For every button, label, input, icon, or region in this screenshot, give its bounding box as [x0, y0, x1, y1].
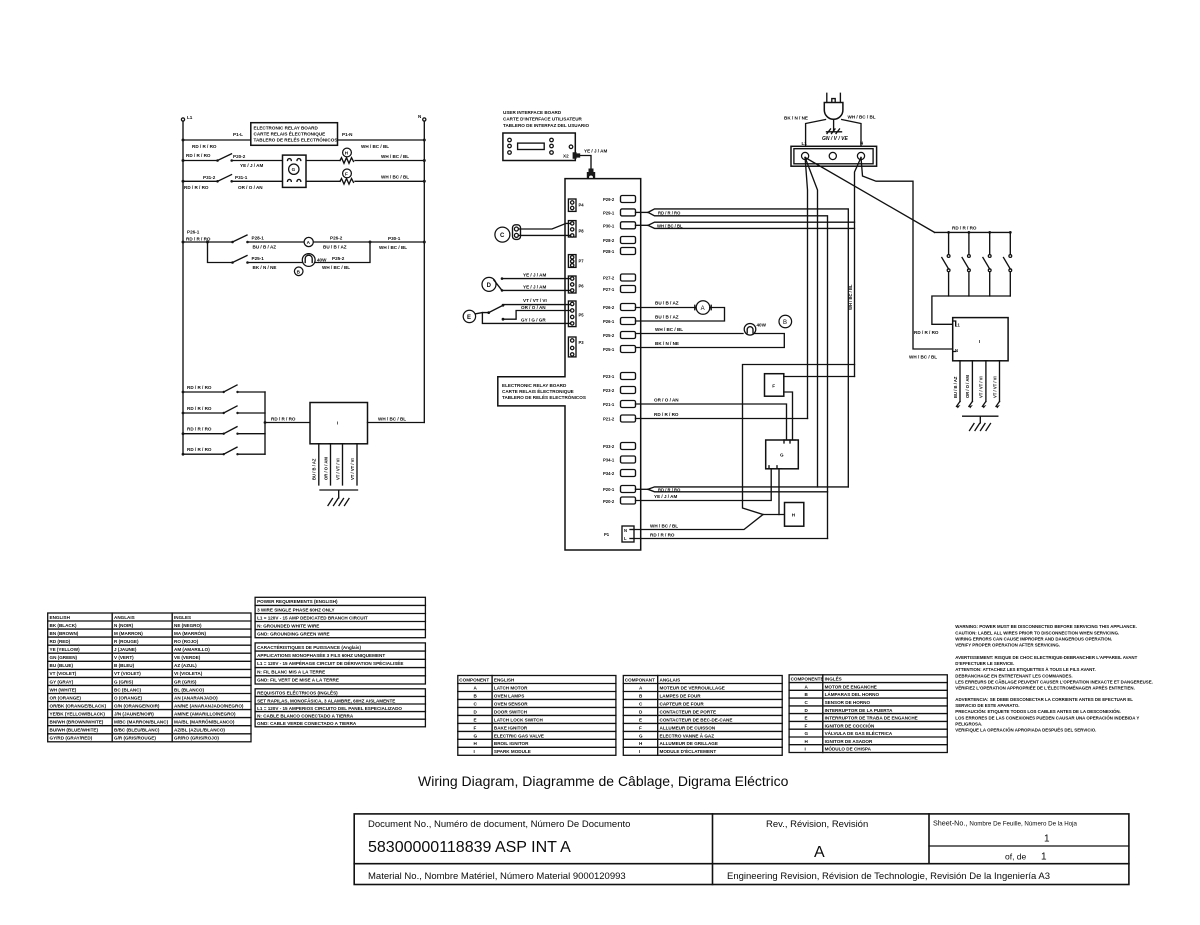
svg-text:VT / VT / VI: VT / VT / VI: [335, 458, 340, 480]
svg-text:ELECTRO VANNE À GAZ: ELECTRO VANNE À GAZ: [660, 732, 715, 738]
pin P29-2: [603, 196, 636, 203]
wire P21-1 OR/O/AN to gas valve: [636, 398, 787, 441]
wire plug BK/N/NE: [784, 116, 826, 154]
svg-text:P20-1: P20-1: [603, 487, 615, 492]
wire P30-1 WH/BC/BL banner to N net: [636, 222, 855, 228]
svg-text:F: F: [639, 725, 642, 730]
resistor F (bake ignitor) on rung3: [340, 169, 354, 184]
svg-text:WH / BC / BL: WH / BC / BL: [379, 245, 407, 250]
svg-text:LOS ERRORES DE LAS CONEXIONES: LOS ERRORES DE LAS CONEXIONES PUEDEN CAU…: [955, 715, 1139, 720]
svg-text:CARTE RELAIS ÉLECTRONIQUE: CARTE RELAIS ÉLECTRONIQUE: [254, 130, 326, 137]
svg-text:RD / R / RO: RD / R / RO: [952, 226, 977, 231]
svg-text:F: F: [805, 723, 808, 728]
svg-text:WH / BC / BL: WH / BC / BL: [322, 265, 350, 270]
component table spanish: [789, 675, 947, 753]
warning text block: [955, 624, 1153, 733]
wire L1 to P21-2: [805, 158, 807, 419]
svg-text:G: G: [780, 453, 784, 458]
svg-text:L1: L1: [187, 115, 193, 120]
wire P29-1 RD/R/RO banner to L1 net: [636, 209, 849, 539]
svg-text:N: GROUNDED WHITE WIRE: N: GROUNDED WHITE WIRE: [257, 623, 319, 628]
spark electrode arrows: [957, 401, 1001, 408]
svg-text:GR (GRIS): GR (GRIS): [174, 679, 197, 684]
svg-text:BK / N / NE: BK / N / NE: [784, 116, 808, 121]
svg-text:N: N: [624, 528, 627, 533]
svg-text:VT / VT / VI: VT / VT / VI: [992, 376, 997, 398]
switch on rung3: [216, 175, 233, 183]
connector P6: [568, 276, 584, 293]
svg-text:BK / N / NE: BK / N / NE: [253, 265, 277, 270]
svg-text:CAPTEUR DE FOUR: CAPTEUR DE FOUR: [660, 701, 705, 706]
svg-text:GN / V / VE: GN / V / VE: [822, 136, 849, 142]
svg-text:RD / R / RO: RD / R / RO: [914, 330, 939, 335]
svg-text:58300000118839 ASP INT A: 58300000118839 ASP INT A: [368, 839, 571, 856]
svg-text:P23-2: P23-2: [603, 388, 615, 393]
burner switch 2: [962, 232, 970, 296]
svg-text:LATCH MOTOR: LATCH MOTOR: [494, 685, 528, 690]
svg-text:40W: 40W: [317, 258, 327, 263]
svg-text:E: E: [467, 315, 471, 321]
svg-text:C: C: [500, 233, 505, 239]
pin P33-2: [603, 443, 636, 450]
svg-text:E: E: [805, 716, 808, 721]
svg-text:F: F: [474, 725, 477, 730]
svg-text:P25-2: P25-2: [603, 333, 615, 338]
svg-text:F: F: [345, 171, 348, 176]
svg-text:B/BC (BLEU/BLANC): B/BC (BLEU/BLANC): [114, 728, 160, 733]
svg-text:VT (VIOLET): VT (VIOLET): [114, 671, 141, 676]
wire N loop to splice: [743, 365, 855, 515]
svg-text:L: L: [624, 536, 627, 541]
svg-text:BK (BLACK): BK (BLACK): [50, 623, 78, 628]
svg-text:ELECTRONIC RELAY BOARD: ELECTRONIC RELAY BOARD: [502, 383, 567, 388]
svg-text:Sheet-No., Nombre De Feuille,: Sheet-No., Nombre De Feuille, Número De …: [933, 819, 1078, 828]
svg-text:P28-1: P28-1: [603, 249, 615, 254]
wire module N label: [909, 355, 937, 360]
wire P21-2 RD/R/RO to L1: [636, 412, 808, 419]
svg-text:D: D: [487, 283, 492, 289]
wire D to P6 YE/J/AM: [502, 273, 571, 291]
electronic relay board label: [502, 383, 586, 400]
svg-text:ANGLAIS: ANGLAIS: [114, 615, 135, 620]
wire module output leads: [312, 444, 358, 485]
svg-text:AZ/BL (AZUL/BLANCO): AZ/BL (AZUL/BLANCO): [174, 728, 225, 733]
connector P3: [568, 337, 584, 357]
pin P25-1: [603, 346, 636, 353]
svg-text:DOOR SWITCH: DOOR SWITCH: [494, 709, 528, 714]
pin P26-1: [603, 318, 636, 325]
svg-text:COMPONENTE: COMPONENTE: [791, 677, 824, 682]
oven lamp 40W (right): [744, 323, 766, 336]
svg-text:40W: 40W: [757, 323, 767, 328]
pin P23-1: [603, 373, 636, 380]
svg-text:PELIGROSA.: PELIGROSA.: [955, 722, 982, 727]
svg-text:REQUISITOS ELÉCTRICOS (INGLÉS): REQUISITOS ELÉCTRICOS (INGLÉS): [257, 689, 338, 696]
svg-text:P3: P3: [579, 340, 585, 345]
svg-text:P23-1: P23-1: [603, 374, 615, 379]
svg-text:V (VERT): V (VERT): [114, 655, 134, 660]
svg-text:P34-1: P34-1: [603, 458, 615, 463]
vertical WH/BC/BL label: [848, 284, 853, 310]
svg-text:VE (VERDE): VE (VERDE): [174, 655, 201, 660]
svg-text:ADVERTENCIA: SE DEBE DESCONECT: ADVERTENCIA: SE DEBE DESCONECTAR LA CORR…: [955, 697, 1133, 702]
svg-text:OR / O / AM: OR / O / AM: [323, 457, 328, 480]
svg-text:LAMPES DE FOUR: LAMPES DE FOUR: [660, 693, 702, 698]
svg-text:BU / B / AZ: BU / B / AZ: [655, 315, 679, 320]
svg-text:WH / BC / BL: WH / BC / BL: [848, 115, 876, 120]
wire P20-1 RD/R/RO flag: [636, 487, 849, 492]
svg-text:NE (NEGRO): NE (NEGRO): [174, 623, 202, 628]
svg-text:LÁMPARAS DEL HORNO: LÁMPARAS DEL HORNO: [825, 691, 880, 697]
wire P25-2 WH/BC/BL to oven lamp: [636, 327, 744, 334]
svg-text:RD / R / RO: RD / R / RO: [658, 211, 681, 216]
svg-text:P20-2: P20-2: [603, 499, 615, 504]
svg-text:P21-1: P21-1: [603, 402, 615, 407]
pin P28-2: [603, 237, 636, 244]
svg-text:OR/BK (ORANGE/BLACK): OR/BK (ORANGE/BLACK): [50, 703, 107, 708]
wire L1 to P20-1 net: [805, 158, 817, 487]
pin P30-1: [603, 222, 636, 229]
svg-text:RD / R / RO: RD / R / RO: [187, 406, 212, 411]
svg-text:L1: L1: [802, 141, 808, 146]
svg-text:MOTEUR DE VERROUILLAGE: MOTEUR DE VERROUILLAGE: [660, 685, 725, 690]
svg-text:AN (ANARANJADO): AN (ANARANJADO): [174, 695, 218, 700]
svg-text:WH / BC / BL: WH / BC / BL: [381, 175, 409, 180]
svg-text:RD / R / RO: RD / R / RO: [186, 153, 211, 158]
svg-text:YE / J / AM: YE / J / AM: [523, 284, 546, 289]
svg-text:ELECTRONIC RELAY BOARD: ELECTRONIC RELAY BOARD: [254, 126, 319, 131]
diagram title: [418, 773, 789, 789]
burner switch 4: [1004, 232, 1012, 296]
svg-text:OR / O / AN: OR / O / AN: [521, 305, 546, 310]
gas valve G box: [766, 440, 799, 469]
pin P20-1: [603, 486, 636, 493]
component table english: [458, 676, 616, 756]
svg-text:VÉRIFIEZ L'OPERATION APPROPRIÉ: VÉRIFIEZ L'OPERATION APPROPRIÉE DE L'ÉLE…: [955, 686, 1135, 691]
svg-text:YE / J / AM: YE / J / AM: [523, 273, 546, 278]
svg-text:RD / R / RO: RD / R / RO: [184, 185, 209, 190]
wire lower bus to module L1: [914, 296, 1010, 335]
svg-text:P29-2: P29-2: [603, 197, 615, 202]
wire X2 to P9 YE/J/AM: [580, 149, 607, 169]
svg-text:ELECTRIC GAS VALVE: ELECTRIC GAS VALVE: [494, 733, 544, 738]
wire lamp branch: [206, 241, 372, 271]
svg-text:P26-1: P26-1: [603, 319, 615, 324]
svg-text:RD / R / RO: RD / R / RO: [658, 487, 681, 492]
svg-text:VERIFY PROPER OPERATION AFTER: VERIFY PROPER OPERATION AFTER SERVICING.: [955, 643, 1060, 648]
svg-text:VT / VT / VI: VT / VT / VI: [979, 376, 984, 398]
spark module I (right): [953, 318, 1008, 361]
pin P34-1: [603, 456, 636, 463]
svg-text:GY / G / GR: GY / G / GR: [521, 317, 546, 322]
svg-text:AM/NE (AMARILLO/NEGRO): AM/NE (AMARILLO/NEGRO): [174, 712, 236, 717]
svg-text:INGLES: INGLES: [174, 615, 191, 620]
electronic relay board outline: [498, 179, 641, 550]
switch on lamp branch: [231, 256, 249, 264]
svg-text:P8: P8: [579, 229, 585, 234]
wire P20-2 YE/J/AM to gas valve: [636, 469, 772, 501]
svg-text:P25-2: P25-2: [332, 256, 345, 261]
svg-text:B: B: [783, 320, 787, 326]
svg-text:YE (YELLOW): YE (YELLOW): [50, 647, 81, 652]
svg-text:M/BC (MARRON/BLANC): M/BC (MARRON/BLANC): [114, 720, 169, 725]
switch on rung4: [231, 235, 249, 243]
wire module output leads (right): [953, 361, 1000, 402]
svg-text:AM (AMARILLO): AM (AMARILLO): [174, 647, 210, 652]
svg-text:INTERRUPTOR DE TRABA DE ENGANC: INTERRUPTOR DE TRABA DE ENGANCHE: [825, 716, 918, 721]
svg-text:M (MARRON): M (MARRON): [114, 631, 143, 636]
svg-text:BAKE IGNITOR: BAKE IGNITOR: [494, 725, 528, 730]
pin P34-2: [603, 470, 636, 477]
wire N to board WH net: [855, 158, 862, 377]
terminal block: [791, 141, 877, 167]
svg-text:3 WIRE SINGLE PHASE 60HZ ONLY: 3 WIRE SINGLE PHASE 60HZ ONLY: [257, 607, 334, 612]
pin P25-2: [603, 332, 636, 339]
pin P29-1: [603, 209, 636, 216]
svg-text:VT / VT / VI: VT / VT / VI: [350, 458, 355, 480]
svg-text:GN (GREEN): GN (GREEN): [50, 655, 78, 660]
svg-text:P33-2: P33-2: [603, 444, 615, 449]
svg-text:ALLUMEUR DE CUISSON: ALLUMEUR DE CUISSON: [660, 725, 716, 730]
connector P7: [568, 255, 584, 268]
svg-text:I: I: [805, 747, 806, 752]
svg-text:P27-1: P27-1: [603, 287, 615, 292]
svg-text:WH / BC / BL: WH / BC / BL: [361, 144, 389, 149]
wire switch rung 2 RD/R/RO: [182, 406, 265, 414]
svg-text:I: I: [337, 421, 338, 426]
svg-text:I: I: [979, 339, 980, 344]
wire color legend table: [48, 613, 251, 742]
svg-text:P20-2: P20-2: [233, 154, 246, 159]
wire rung2 YE/J/AM: [182, 153, 426, 168]
svg-text:BU / B / AZ: BU / B / AZ: [323, 245, 347, 250]
svg-text:P29-1: P29-1: [603, 210, 615, 215]
svg-text:RD / R / RO: RD / R / RO: [187, 427, 212, 432]
svg-text:RD (RED): RD (RED): [50, 639, 71, 644]
pin P21-1: [603, 401, 636, 408]
latch motor A (right): [695, 301, 711, 315]
svg-text:BL (BLANCO): BL (BLANCO): [174, 687, 204, 692]
svg-text:OVEN SENSOR: OVEN SENSOR: [494, 701, 528, 706]
spark module I (left): [310, 403, 368, 444]
svg-text:BROIL IGNITOR: BROIL IGNITOR: [494, 741, 529, 746]
gas valve G box across rung2/rung3: [283, 155, 307, 187]
svg-text:P31-1: P31-1: [235, 175, 248, 180]
svg-text:ATTENTION: ATTACHEZ LES ETIQUE: ATTENTION: ATTACHEZ LES ETIQUETTES À TOU…: [955, 667, 1095, 672]
ground (left spark module): [320, 490, 358, 506]
svg-text:WH / BC / BL: WH / BC / BL: [655, 327, 683, 332]
wire sensor to P8: [518, 223, 570, 235]
pin P28-1: [603, 248, 636, 255]
svg-text:DEBRANCHAGE EN ENTRETENANT LES: DEBRANCHAGE EN ENTRETENANT LES COMMANDES…: [955, 673, 1072, 678]
svg-text:Wiring Diagram, Diagramme de C: Wiring Diagram, Diagramme de Câblage, Di…: [418, 773, 789, 789]
svg-text:MÓDULO DE CHISPA: MÓDULO DE CHISPA: [825, 745, 872, 752]
svg-text:WH (WHITE): WH (WHITE): [50, 687, 77, 692]
wire rung1 P1-L RD/R/RO: [182, 132, 426, 149]
svg-text:G/R (GRIS/ROUGE): G/R (GRIS/ROUGE): [114, 736, 156, 741]
svg-text:N (NOIR): N (NOIR): [114, 623, 134, 628]
svg-text:P28-2: P28-2: [603, 238, 615, 243]
svg-text:GR/RO (GRIS/ROJO): GR/RO (GRIS/ROJO): [174, 736, 219, 741]
svg-text:N: FIL BLANC MIS A LA TERRE: N: FIL BLANC MIS A LA TERRE: [257, 670, 325, 675]
svg-text:MOTOR DE ENGANCHE: MOTOR DE ENGANCHE: [825, 685, 877, 690]
svg-text:BC (BLANC): BC (BLANC): [114, 687, 142, 692]
ground (right spark module): [963, 416, 998, 430]
svg-text:TABLERO DE RELÉS ELECTRÓNICOS: TABLERO DE RELÉS ELECTRÓNICOS: [502, 393, 586, 400]
svg-text:GND: FIL VERT DE MISE A LA TER: GND: FIL VERT DE MISE A LA TERRE: [257, 678, 339, 683]
svg-text:APPLICATIONS MONOPHASÉE 3 FILS: APPLICATIONS MONOPHASÉE 3 FILS 60HZ UNIQ…: [257, 651, 385, 658]
svg-text:BN/WH (BROWN/WHITE): BN/WH (BROWN/WHITE): [50, 720, 104, 725]
svg-text:P4: P4: [579, 203, 585, 208]
svg-text:P6: P6: [579, 284, 585, 289]
connector P1: [604, 526, 634, 542]
svg-text:G: G: [292, 167, 296, 172]
svg-text:AN/NE (ANARANJADO/NEGRO): AN/NE (ANARANJADO/NEGRO): [174, 703, 244, 708]
pin P21-2: [603, 415, 636, 422]
svg-text:VÁLVULA DE GAS ELÉCTRICA: VÁLVULA DE GAS ELÉCTRICA: [825, 729, 893, 736]
svg-text:P26-2: P26-2: [330, 236, 343, 241]
svg-text:IGNITOR DE ASADOR: IGNITOR DE ASADOR: [825, 739, 873, 744]
svg-text:OR / O / AN: OR / O / AN: [654, 398, 679, 403]
svg-text:BU (BLUE): BU (BLUE): [50, 663, 74, 668]
svg-text:VERIFIQUE LA OPERACIÓN APROPIA: VERIFIQUE LA OPERACIÓN APROPIADA DESPUÉS…: [955, 728, 1096, 733]
svg-text:POWER REQUIREMENTS (ENGLISH): POWER REQUIREMENTS (ENGLISH): [257, 599, 338, 604]
resistor H (broil ignitor) on rung2: [340, 148, 354, 163]
svg-text:OR / O / AN: OR / O / AN: [238, 185, 263, 190]
connector P9 plug: [587, 169, 595, 187]
user interface board: [503, 110, 590, 161]
caracteristiques de puissance (francais): [255, 643, 425, 684]
svg-text:YE / J / AM: YE / J / AM: [240, 163, 263, 168]
wire bus to spark module RD/R/RO: [265, 417, 310, 423]
svg-text:G: G: [805, 731, 809, 736]
svg-text:N: CABLE BLANCO CONECTADO A TI: N: CABLE BLANCO CONECTADO A TIERRA: [257, 714, 354, 719]
svg-text:P26-2: P26-2: [603, 305, 615, 310]
node N rail: [418, 114, 426, 423]
power plug: [824, 93, 843, 119]
svg-text:Engineering Revision, Révision: Engineering Revision, Révision de Techno…: [727, 871, 1050, 882]
svg-text:PRECAUCIÓN: ETIQUETE TODOS LOS: PRECAUCIÓN: ETIQUETE TODOS LOS CABLES AN…: [955, 709, 1120, 714]
svg-text:N: N: [955, 348, 958, 353]
power requirements (english): [255, 597, 425, 637]
svg-text:RD / R / RO: RD / R / RO: [654, 412, 679, 417]
svg-text:YE / J / AM: YE / J / AM: [584, 149, 607, 154]
bake ignitor F box: [765, 374, 784, 397]
svg-text:GND: GROUNDING GREEN WIRE: GND: GROUNDING GREEN WIRE: [257, 632, 329, 637]
svg-text:P30-1: P30-1: [603, 223, 615, 228]
svg-text:YE/BK (YELLOW/BLACK): YE/BK (YELLOW/BLACK): [50, 712, 106, 717]
svg-text:SET RAPILAS, MONOFÁSICA, 3 ALA: SET RAPILAS, MONOFÁSICA, 3 ALAMBRE, 60HZ…: [257, 697, 395, 703]
pin P23-2: [603, 387, 636, 394]
svg-text:O (ORANGE): O (ORANGE): [114, 695, 143, 700]
svg-text:P25-1: P25-1: [603, 347, 615, 352]
wire switch rung 1 RD/R/RO: [182, 385, 265, 393]
node L1 rail: [181, 115, 192, 454]
svg-text:Rev., Révision, Revisión: Rev., Révision, Revisión: [766, 819, 868, 830]
svg-text:P25-1: P25-1: [252, 256, 265, 261]
svg-text:INTERRUPTOR DE LA PUERTA: INTERRUPTOR DE LA PUERTA: [825, 708, 893, 713]
svg-text:ALLUMEUR DE GRILLAGE: ALLUMEUR DE GRILLAGE: [660, 741, 718, 746]
svg-text:P1: P1: [604, 532, 610, 537]
svg-text:OR (ORANGE): OR (ORANGE): [50, 695, 82, 700]
svg-text:VI (VIOLETA): VI (VIOLETA): [174, 671, 203, 676]
svg-text:RD / R / RO: RD / R / RO: [187, 385, 212, 390]
svg-text:RD / R / RO: RD / R / RO: [192, 144, 217, 149]
svg-text:J/N (JAUNE/NOIR): J/N (JAUNE/NOIR): [114, 712, 154, 717]
svg-text:WH / BC / BL: WH / BC / BL: [650, 524, 678, 529]
oven sensor C: [495, 225, 521, 242]
svg-text:INGLÉS: INGLÉS: [825, 675, 842, 682]
wire P26-2 BU/B/AZ to latch motor: [636, 301, 697, 308]
svg-text:P31-2: P31-2: [203, 175, 216, 180]
svg-text:WIRING ERRORS CAN CAUSE IMPROP: WIRING ERRORS CAN CAUSE IMPROPER AND DAN…: [955, 636, 1112, 641]
svg-text:TABLERO DE INTERFAZ DEL USUARI: TABLERO DE INTERFAZ DEL USUARIO: [503, 123, 590, 128]
pin P26-2: [603, 304, 636, 311]
svg-text:E: E: [639, 717, 642, 722]
door switch D: [482, 277, 503, 291]
svg-text:BU/WH (BLUE/WHITE): BU/WH (BLUE/WHITE): [50, 728, 99, 733]
svg-text:VT / VT / VI: VT / VT / VI: [523, 298, 547, 303]
svg-text:BK / N / NE: BK / N / NE: [655, 341, 679, 346]
svg-text:D'EFFECTUER LE SERVICE.: D'EFFECTUER LE SERVICE.: [955, 661, 1014, 666]
wire switch rung 4 RD/R/RO: [182, 447, 265, 455]
svg-text:B (BLEU): B (BLEU): [114, 663, 135, 668]
svg-text:CONTACTEUR DE PORTE: CONTACTEUR DE PORTE: [660, 709, 717, 714]
component table french: [623, 676, 782, 756]
svg-text:F: F: [772, 384, 775, 389]
connector P8: [568, 221, 584, 237]
svg-text:SPARK MODULE: SPARK MODULE: [494, 749, 531, 754]
svg-text:G: G: [474, 733, 478, 738]
wire switch rung 3 RD/R/RO: [182, 427, 265, 435]
broil ignitor H box: [785, 503, 804, 527]
svg-text:Material No., Nombre Matériel,: Material No., Nombre Matériel, Número Ma…: [368, 871, 626, 882]
callout B (right): [779, 315, 792, 328]
svg-text:P1-N: P1-N: [342, 132, 353, 137]
svg-text:P5: P5: [579, 313, 585, 318]
latch lock switch E: [463, 304, 504, 323]
svg-text:WH / BC / BL: WH / BC / BL: [909, 355, 937, 360]
connector P4: [568, 199, 584, 211]
svg-text:Document No., Numéro de docume: Document No., Numéro de document, Número…: [368, 819, 630, 830]
svg-text:BU / B / AZ: BU / B / AZ: [312, 458, 317, 480]
svg-text:GND: CABLE VERDE CONECTADO A T: GND: CABLE VERDE CONECTADO A TIERRA: [257, 721, 357, 726]
svg-text:G: G: [639, 733, 643, 738]
svg-text:IGNITOR DE COCCIÓN: IGNITOR DE COCCIÓN: [825, 721, 875, 728]
svg-text:AVERTISSEMENT: RISQUE DE CHOC: AVERTISSEMENT: RISQUE DE CHOC ELECTRIQUE…: [955, 655, 1137, 660]
wire F to N WH/BC/BL: [784, 377, 855, 441]
wire RD/R/RO bus: [935, 226, 1012, 234]
burner switch 1: [942, 232, 950, 296]
svg-text:COMPONENT: COMPONENT: [459, 677, 489, 682]
svg-text:L1 = 120V - 15 AMPERIOS CIRCUI: L1 = 120V - 15 AMPERIOS CIRCUITO DEL PAN…: [257, 706, 402, 711]
svg-text:P30-1: P30-1: [388, 236, 401, 241]
svg-text:MA (MARRÓN): MA (MARRÓN): [174, 629, 206, 636]
wire module to N rail WH/BC/BL: [368, 417, 425, 423]
svg-text:WH / BC / BL: WH / BC / BL: [657, 223, 683, 228]
oven lamp 40W symbol: [302, 254, 315, 267]
svg-text:VT (VIOLET): VT (VIOLET): [50, 671, 77, 676]
svg-text:OR / O / AM: OR / O / AM: [965, 375, 970, 398]
svg-text:COMPONANT: COMPONANT: [625, 677, 655, 682]
svg-text:SENSOR DE HORNO: SENSOR DE HORNO: [825, 700, 871, 705]
wire L1 diagonal to burner switches: [805, 158, 935, 233]
svg-text:I: I: [639, 749, 640, 754]
wire P1-L RD/R/RO: [634, 533, 828, 539]
svg-text:AZ (AZUL): AZ (AZUL): [174, 663, 197, 668]
svg-text:ENGLISH: ENGLISH: [50, 615, 71, 620]
svg-text:X2: X2: [563, 154, 569, 159]
